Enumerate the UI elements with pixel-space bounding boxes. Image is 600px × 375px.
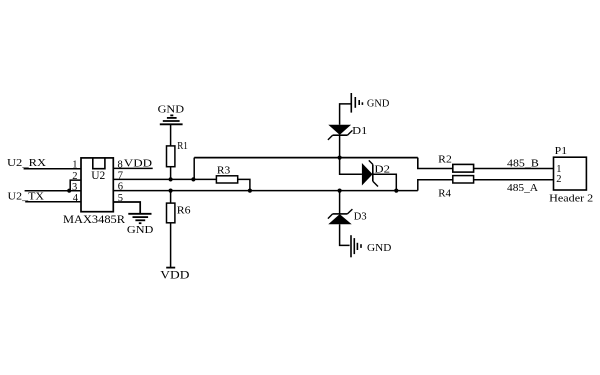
junction dot D2 out [394, 189, 398, 193]
junction dot pin3/pin2 tie [67, 189, 71, 193]
svg-text:2: 2 [72, 171, 77, 182]
zener diode D2 [362, 160, 378, 186]
IC U2 notch [93, 158, 105, 168]
svg-text:4: 4 [73, 193, 79, 204]
pin 2 stub wire [70, 180, 81, 191]
svg-text:VDD: VDD [124, 157, 152, 169]
svg-text:R6: R6 [177, 205, 191, 217]
svg-text:D3: D3 [354, 211, 367, 223]
wire rail2 down to D3 cathode [339, 191, 341, 214]
svg-text:GND: GND [158, 104, 185, 116]
svg-text:GND: GND [367, 243, 392, 254]
zener diode D1 [328, 125, 353, 140]
svg-text:R2: R2 [438, 153, 452, 165]
wire top rail jog down to R2 [418, 158, 453, 169]
svg-text:R4: R4 [438, 187, 451, 199]
wire U2_RX to pin 1 [24, 168, 81, 170]
junction dot R1/rail1 [169, 177, 173, 181]
chassis ground symbol top right [351, 93, 362, 113]
svg-text:VDD: VDD [160, 270, 189, 282]
zener diode D3 [328, 209, 353, 224]
wire 485_B to header pin 1 [474, 168, 554, 170]
junction dot R3 out [248, 189, 252, 193]
svg-text:R1: R1 [177, 140, 188, 152]
wire R6 bottom to VDD [170, 223, 172, 268]
power terminal bar VDD bottom [166, 267, 175, 269]
wire jog up to top rail [193, 158, 195, 180]
ground symbol at pin 5 [128, 214, 151, 223]
svg-text:U2_RX: U2_RX [7, 157, 46, 169]
svg-text:2: 2 [556, 174, 561, 185]
wire D1 cathode to top rail [339, 135, 341, 157]
wire R3 out down to rail2 [238, 179, 250, 190]
svg-text:GND: GND [367, 99, 390, 110]
wire net to pin 3 [25, 190, 81, 192]
junction dot D3 tap [338, 189, 342, 193]
resistor R4 [453, 176, 474, 183]
junction dot top-rail jog [191, 177, 195, 181]
svg-text:U2_TX: U2_TX [8, 191, 45, 203]
wire D3 anode down to ground [340, 224, 350, 245]
svg-text:485_B: 485_B [507, 157, 539, 169]
wire 485_A to header pin 2 [474, 179, 554, 181]
resistor R1 [167, 146, 175, 167]
svg-text:R3: R3 [217, 165, 231, 177]
svg-text:GND: GND [127, 224, 154, 236]
resistor R2 [453, 164, 474, 172]
connector P1 body [554, 157, 587, 190]
wire rail2 jog up to R4 [418, 180, 453, 191]
svg-text:D1: D1 [352, 125, 367, 137]
resistor R3 [216, 176, 237, 183]
junction dot R6/rail2 [169, 189, 173, 193]
chassis ground symbol bottom right [351, 235, 361, 257]
wire D1 anode up to ground [340, 104, 351, 125]
wire top rail [194, 157, 418, 159]
svg-text:U2: U2 [91, 170, 105, 182]
resistor R6 [167, 203, 175, 223]
svg-text:Header 2: Header 2 [549, 193, 593, 205]
wire pin 7 rail to R3 [113, 178, 216, 180]
wire pin 5 to ground [113, 202, 140, 214]
wire R1 bottom to rail1 [170, 167, 172, 180]
svg-text:P1: P1 [555, 145, 567, 157]
wire top rail tap to D2 anode [340, 158, 362, 175]
wire pin 8 VDD stub [113, 167, 152, 169]
svg-text:MAX3485R: MAX3485R [63, 214, 125, 226]
inverted ground symbol above R1 [160, 115, 183, 124]
wire GND to R1 top [170, 124, 172, 146]
wire rail2 to R6 top [170, 191, 172, 204]
wire pin 6 rail2 [113, 190, 418, 192]
svg-text:1: 1 [72, 160, 77, 171]
junction dot D1/top rail [338, 156, 342, 160]
wire D2 cathode down to rail2 [373, 174, 397, 190]
svg-text:485_A: 485_A [507, 182, 538, 194]
svg-text:3: 3 [72, 182, 77, 193]
wire U2_TX to pin 4 [25, 201, 81, 203]
IC U2 body [81, 158, 113, 212]
